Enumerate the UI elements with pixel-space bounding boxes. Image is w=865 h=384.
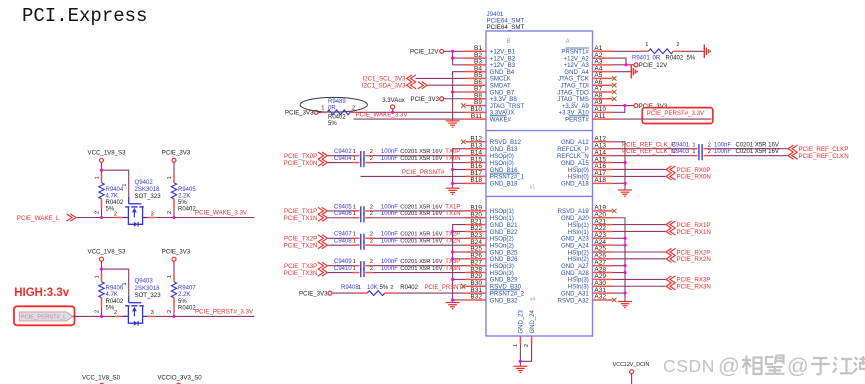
resistor R9407 2.2K <box>167 261 197 313</box>
pin A14 REFCLK_N <box>557 149 613 160</box>
junction 3.3VAux on B10 wire <box>391 111 394 114</box>
svg-text:4.7K: 4.7K <box>106 292 118 298</box>
svg-text:3: 3 <box>151 310 154 316</box>
svg-text:A11: A11 <box>594 113 605 120</box>
svg-text:2: 2 <box>370 149 373 155</box>
wire TX2P to pin <box>372 232 465 239</box>
wire PCIE_RX2N from pin <box>613 255 711 263</box>
resistor R9408 10K <box>332 285 419 295</box>
junction R9406/perst wire <box>100 315 103 318</box>
svg-text:PCIE_3V3: PCIE_3V3 <box>285 110 314 117</box>
svg-text:5%: 5% <box>380 285 389 291</box>
svg-text:1: 1 <box>321 105 324 111</box>
svg-text:SOT_323: SOT_323 <box>135 193 162 200</box>
svg-text:C9409: C9409 <box>334 259 352 265</box>
junction GND A31 <box>623 292 626 295</box>
junction at VCC_1V8_S3 branch <box>100 169 103 172</box>
svg-text:C9406: C9406 <box>334 211 352 217</box>
svg-text:R0402: R0402 <box>328 115 346 121</box>
power 3.3VAux <box>382 97 405 112</box>
svg-text:TX0N: TX0N <box>445 156 460 162</box>
svg-text:C9402: C9402 <box>334 149 352 155</box>
svg-text:PCIE_12V: PCIE_12V <box>639 62 668 69</box>
svg-text:C0201 X5R 16V: C0201 X5R 16V <box>400 204 442 210</box>
wire PCIE_RX1N from pin <box>613 228 711 236</box>
svg-text:100nF: 100nF <box>381 156 398 162</box>
svg-text:R9404: R9404 <box>106 187 124 193</box>
no-connect B9 <box>461 103 465 107</box>
svg-text:PCIE_RX3N: PCIE_RX3N <box>677 284 711 291</box>
pin B13 GND_B13 <box>466 142 519 153</box>
svg-text:C0201 X5R 16V: C0201 X5R 16V <box>400 156 442 162</box>
svg-text:VCCIO_3V3_S0: VCCIO_3V3_S0 <box>157 375 202 382</box>
wire GND bus B13-B18 <box>453 149 466 188</box>
svg-text:2.2K: 2.2K <box>178 193 190 199</box>
svg-text:100nF: 100nF <box>381 149 398 155</box>
wire A11 PERST# to PCIE_PERST#_3.3V <box>613 108 713 124</box>
svg-text:1: 1 <box>692 142 695 148</box>
pin A29 HSIp(3) <box>568 273 613 284</box>
svg-text:1: 1 <box>122 282 128 285</box>
svg-text:GND_A18: GND_A18 <box>561 181 589 188</box>
pin B31 PRSNT2#_2 <box>466 287 525 298</box>
pin B25 GND_B25 <box>466 246 519 257</box>
svg-text:GND_B32: GND_B32 <box>490 297 518 304</box>
wire +3.3V A9-A10 to PCIE_3V3 <box>613 106 634 113</box>
svg-text:1: 1 <box>358 285 361 291</box>
wire R9405 to PCIE_WAKE_3.3V <box>155 208 254 218</box>
pin A11 PERST# <box>565 113 612 124</box>
junction GND B26 <box>451 257 454 260</box>
svg-text:GND_23: GND_23 <box>519 309 525 333</box>
svg-text:PERST#: PERST# <box>565 116 589 123</box>
pin A10 +3.3V_A10 <box>558 106 612 117</box>
svg-text:2: 2 <box>370 259 373 265</box>
svg-text:VCC_1V8_S3: VCC_1V8_S3 <box>88 150 127 157</box>
svg-text:PCIE_WAKE_L: PCIE_WAKE_L <box>17 215 60 222</box>
pin B4 GND_B4 <box>466 65 515 76</box>
watermark jiang <box>833 357 853 373</box>
svg-text:R9406: R9406 <box>106 286 124 292</box>
wire TX0P to pin <box>372 149 465 156</box>
svg-text:HIGH:3.3v: HIGH:3.3v <box>14 287 70 299</box>
svg-text:PCIE_3V3: PCIE_3V3 <box>411 96 440 103</box>
pin B22 GND_B22 <box>466 225 519 236</box>
svg-text:B11: B11 <box>471 113 482 120</box>
svg-text:VCC_1V8_S3: VCC_1V8_S3 <box>88 249 127 256</box>
resistor R9489 0R with ellipse highlight <box>300 97 367 127</box>
pin B18 GND_B18 <box>466 177 519 188</box>
pin B5 SMCLK <box>466 72 511 83</box>
svg-text:2: 2 <box>94 310 100 313</box>
wire PCIE_RX1P from pin <box>613 221 711 229</box>
wire R9407 to PCIE_PERST#_3.3V <box>155 307 254 317</box>
svg-text:1: 1 <box>353 156 356 162</box>
pin A1 PRSNT1# <box>561 45 612 56</box>
pin B21 GND_B21 <box>466 218 519 229</box>
svg-text:I2C1_SDA_3V3: I2C1_SDA_3V3 <box>362 83 406 90</box>
pin B10 3.3VAUX <box>466 106 515 117</box>
svg-text:PCIE_WAKE_3.3V: PCIE_WAKE_3.3V <box>195 209 248 216</box>
pin A4 GND_A4 <box>564 65 612 76</box>
wire TX1N to pin <box>372 211 465 218</box>
svg-text:100nF: 100nF <box>381 211 398 217</box>
wire GND bus A20-A31 <box>613 218 626 302</box>
svg-text:1: 1 <box>94 176 100 179</box>
watermark wang <box>765 356 785 374</box>
junction GND B25 <box>451 250 454 253</box>
svg-text:2: 2 <box>370 266 373 272</box>
ground arrow (A1) <box>704 45 710 59</box>
port PCIE_TX1P <box>284 207 327 215</box>
capacitor C9404 100nF <box>328 156 443 167</box>
wire R9404 bottom to PCIE_WAKE_L line <box>101 208 103 218</box>
svg-text:2: 2 <box>167 310 173 313</box>
power PCIE_3V3 (upper right) <box>162 150 191 163</box>
svg-text:Q9402: Q9402 <box>135 179 154 186</box>
no-connect B12 <box>461 140 465 144</box>
svg-text:1: 1 <box>692 149 695 155</box>
wire I2C1_SDA_3V3 to B6 <box>428 84 466 86</box>
wire PCIE_PERST#_L to Q9403 source <box>73 315 115 317</box>
svg-text:R9407: R9407 <box>178 286 196 292</box>
svg-text:1: 1 <box>353 232 356 238</box>
junction GND B32 <box>451 298 454 301</box>
junction bottom gnd <box>519 360 522 363</box>
ground (section3 B) <box>446 303 460 309</box>
svg-text:R0402: R0402 <box>106 299 124 305</box>
svg-text:PCIE_12V: PCIE_12V <box>410 49 439 56</box>
junction GND B18 <box>451 182 454 185</box>
pin A31 GND_A31 <box>561 287 612 298</box>
wire PCIE_3V3 to B8 <box>444 98 466 100</box>
pin B20 HSOn(1) <box>466 211 514 222</box>
svg-text:PCIE_RX1N: PCIE_RX1N <box>677 229 711 236</box>
pin B1 +12V_B1 <box>466 45 516 56</box>
connector J9401 refdes <box>487 11 525 31</box>
pin A13 REFCLK_P <box>557 142 612 153</box>
wire GND bus A12-A18 <box>613 142 626 190</box>
svg-text:CSDN: CSDN <box>663 356 715 376</box>
svg-text:2: 2 <box>114 211 117 217</box>
svg-text:PCIE_RX0N: PCIE_RX0N <box>677 174 711 181</box>
svg-text:x1: x1 <box>530 184 536 190</box>
capacitor C9409 100nF <box>328 259 443 270</box>
svg-text:2: 2 <box>524 344 530 347</box>
wire PCIE_PRSNT# to B31 <box>395 285 466 293</box>
svg-text:GND_B18: GND_B18 <box>490 181 518 188</box>
resistor R9404 4.7K <box>94 174 124 214</box>
svg-text:B32: B32 <box>470 294 482 301</box>
svg-text:1: 1 <box>513 344 519 347</box>
power PCIE_3V3 (at R9408) <box>299 290 332 297</box>
pin A19 RSVD_A19 <box>558 205 613 216</box>
svg-text:x4: x4 <box>530 297 536 303</box>
junction GND A15 <box>623 161 626 164</box>
svg-text:2: 2 <box>708 142 711 148</box>
wire R9401 to ground arrow <box>681 50 704 52</box>
port PCIE_TX3P <box>284 262 327 270</box>
svg-text:2: 2 <box>370 239 373 245</box>
ground (section2 A) <box>618 190 632 196</box>
power VCC_1V8_S3 (upper) <box>88 150 127 163</box>
svg-text:2: 2 <box>114 310 117 316</box>
svg-text:2: 2 <box>94 211 100 214</box>
svg-text:GND_24: GND_24 <box>530 309 536 333</box>
power VCC_1V8_S0 <box>82 375 121 384</box>
pin B14 HSOp(0) <box>466 149 514 160</box>
svg-text:R9489: R9489 <box>328 99 346 105</box>
pin A32 RSVD_A32 <box>558 294 613 305</box>
pin A27 GND_A27 <box>561 259 612 270</box>
svg-text:PCIE_3V3: PCIE_3V3 <box>162 150 191 157</box>
pin A22 HSIn(1) <box>568 225 613 236</box>
junction GND A28 <box>623 271 626 274</box>
wire VCC_1V8_S3 to R9404 and Q9402 gate <box>102 162 129 197</box>
wire TX3N to pin <box>372 266 465 273</box>
svg-text:SOT_323: SOT_323 <box>135 292 162 299</box>
svg-text:R9408: R9408 <box>341 285 359 291</box>
svg-text:PCIE_3V3: PCIE_3V3 <box>162 249 191 256</box>
pin A25 HSIp(2) <box>568 246 613 257</box>
svg-text:PCIE_RX2N: PCIE_RX2N <box>677 256 711 263</box>
wire PCIE_12V bus B1-B3 <box>444 51 466 65</box>
pin A28 GND_A28 <box>561 266 612 277</box>
wire PCIE_RX0P from pin <box>613 166 711 174</box>
wire PCIE_WAKE_L to Q9402 source <box>77 217 115 219</box>
pin B32 GND_B32 <box>466 294 519 305</box>
svg-text:0R: 0R <box>328 106 336 112</box>
svg-text:R9405: R9405 <box>178 187 196 193</box>
pin A12 GND_A12 <box>561 136 612 147</box>
wire PCIE_REF_CLK_N from pin <box>613 148 691 155</box>
svg-text:100nF: 100nF <box>714 149 731 155</box>
port PCIE_WAKE_L <box>17 214 76 222</box>
svg-text:5%: 5% <box>178 200 187 206</box>
junction GND A27 <box>623 264 626 267</box>
svg-text:C0201 X5R 16V: C0201 X5R 16V <box>736 149 779 155</box>
pin B6 SMDAT <box>466 79 511 90</box>
svg-text:C9410: C9410 <box>334 266 352 272</box>
wire +12V A2-A3 to PCIE_12V <box>613 58 634 65</box>
pin B24 HSOn(2) <box>466 239 514 250</box>
svg-text:R0402: R0402 <box>178 207 196 213</box>
wire PCIE_RX0N from pin <box>613 173 711 181</box>
svg-text:2SK3018: 2SK3018 <box>135 186 161 193</box>
power PCIE_3V3 (right) <box>634 103 668 110</box>
pin B16 GND_B16 <box>466 163 519 174</box>
power PCIE_3V3 (left of B8) <box>411 96 444 103</box>
power PCIE_3V3 (lower right) <box>162 249 191 262</box>
svg-text:2: 2 <box>370 204 373 210</box>
svg-text:2: 2 <box>370 232 373 238</box>
capacitor C9410 100nF <box>328 266 443 277</box>
pin A7 JTAG_TDO <box>557 86 612 97</box>
svg-text:TX1N: TX1N <box>445 211 460 217</box>
pin B11 WAKE# <box>466 113 512 124</box>
port PCIE_TX2P <box>284 235 327 243</box>
connector J9401 body <box>486 31 593 336</box>
wire R9406 bottom to PERST line <box>101 307 103 317</box>
port PCIE_TX1N <box>284 214 328 222</box>
wire TX0N to pin <box>372 156 465 163</box>
svg-text:4.7K: 4.7K <box>106 193 118 199</box>
svg-text:2: 2 <box>167 211 173 214</box>
svg-text:A: A <box>565 38 570 45</box>
svg-text:C9404: C9404 <box>334 156 352 162</box>
port PCIE_TX0N <box>284 159 328 167</box>
svg-text:B18: B18 <box>470 177 482 184</box>
junction R9404/wake wire <box>100 216 103 219</box>
ground (section3 A) <box>618 302 632 308</box>
ground (bottom pins) <box>513 366 527 372</box>
junction A9 3V3 <box>623 104 626 107</box>
no-connect A6 <box>612 83 616 87</box>
svg-text:C0201 X5R 16V: C0201 X5R 16V <box>400 259 442 265</box>
pin A3 +12V_A3 <box>564 59 613 70</box>
svg-text:2: 2 <box>676 42 679 48</box>
svg-text:PCIE_TX0N: PCIE_TX0N <box>284 160 318 167</box>
svg-text:C0201 X5R 16V: C0201 X5R 16V <box>400 266 442 272</box>
wire PCIE_RX3N from pin <box>613 283 711 291</box>
svg-text:C0201 X5R 16V: C0201 X5R 16V <box>400 211 442 217</box>
junction GND A23 <box>623 237 626 240</box>
power VCC_1V8_S3 (lower) <box>88 249 127 262</box>
svg-text:TX1P: TX1P <box>445 204 460 210</box>
wire PCIE_RX2P from pin <box>613 248 711 256</box>
svg-text:VCC12V_DCIN: VCC12V_DCIN <box>613 362 650 368</box>
svg-text:Q9403: Q9403 <box>135 278 154 285</box>
svg-text:PCIE_TX1N: PCIE_TX1N <box>284 215 318 222</box>
svg-text:A32: A32 <box>594 294 606 301</box>
pin B29 GND_B29 <box>466 273 519 284</box>
capacitor C9408 100nF <box>328 239 443 250</box>
port PCIE_TX0P <box>284 152 327 160</box>
pin A20 GND_A20 <box>561 211 612 222</box>
wire PCIE_RX3P from pin <box>613 276 711 284</box>
pin A2 +12V_A2 <box>564 52 613 63</box>
resistor R9405 2.2K <box>167 162 197 214</box>
power PCIE_3V3 (at R9489) <box>285 110 318 117</box>
svg-text:2: 2 <box>370 156 373 162</box>
junction R9405/wake3.3 wire <box>172 216 175 219</box>
svg-text:C9407: C9407 <box>334 232 352 238</box>
svg-text:R0402: R0402 <box>666 55 684 61</box>
pin A17 HSIn(0) <box>568 170 613 181</box>
capacitor C9407 100nF <box>328 232 443 243</box>
capacitor C9401 100nF <box>672 142 779 153</box>
svg-text:0R: 0R <box>653 55 661 61</box>
pin B15 HSOn(0) <box>466 156 514 167</box>
no-connect A19 <box>612 209 616 213</box>
svg-text:1: 1 <box>94 275 100 278</box>
wire TX3P to pin <box>372 259 465 266</box>
svg-text:C9403: C9403 <box>672 149 690 155</box>
capacitor C9406 100nF <box>328 211 443 222</box>
svg-text:1: 1 <box>122 183 128 186</box>
junction GND A24 <box>623 244 626 247</box>
svg-text:100nF: 100nF <box>381 259 398 265</box>
svg-text:C0201 X5R 16V: C0201 X5R 16V <box>400 239 442 245</box>
transistor Q9402 2SK3018 <box>114 179 161 227</box>
svg-text:PCIE_3V3: PCIE_3V3 <box>299 290 328 297</box>
capacitor C9402 100nF <box>328 149 443 160</box>
no-connect A5 <box>612 76 616 80</box>
junction A3 12V <box>624 63 627 66</box>
wire GND_A4 to ground arrow <box>613 71 631 73</box>
wire PCIE_PRSNT# to B17 <box>361 169 466 176</box>
pin A24 GND_A24 <box>561 239 612 250</box>
svg-text:C9408: C9408 <box>334 239 352 245</box>
pin B3 +12V_B3 <box>466 59 516 70</box>
wire VCC_1V8_S3 to R9406 and Q9403 gate <box>102 261 129 296</box>
svg-text:PCIE_PRSNT#: PCIE_PRSNT# <box>425 285 467 291</box>
no-connect A32 <box>612 298 616 302</box>
wire GND bus B4-B7 <box>453 72 466 121</box>
pin B19 HSOp(1) <box>466 205 514 216</box>
wire to port PCIE_REF_CLKP <box>711 145 849 153</box>
svg-text:R0402: R0402 <box>106 200 124 206</box>
svg-text:100nF: 100nF <box>381 266 398 272</box>
pin B8 +3.3V_B8 <box>466 92 518 103</box>
svg-text:1: 1 <box>167 176 173 179</box>
svg-text:WAKE#: WAKE# <box>490 116 512 123</box>
pin A6 JTAG_TDI <box>560 79 612 90</box>
resistor R9406 4.7K <box>94 273 124 313</box>
svg-text:1: 1 <box>353 149 356 155</box>
wire TX1P to pin <box>372 204 465 211</box>
pin A18 GND_A18 <box>561 177 612 188</box>
svg-text:PCIE_PERST#_3.3V: PCIE_PERST#_3.3V <box>195 308 254 315</box>
wire PCIE_REF_CLK_P from pin <box>613 141 691 148</box>
svg-text:PCIE_TX2N: PCIE_TX2N <box>284 242 318 249</box>
svg-text:5%: 5% <box>178 299 187 305</box>
port PCIE_PERST#_L with highlight box <box>14 306 75 325</box>
pin B12 RSVD_B12 <box>466 136 522 147</box>
svg-text:10K: 10K <box>367 285 378 291</box>
watermark hu <box>854 356 865 374</box>
svg-text:C9405: C9405 <box>334 204 352 210</box>
ground (section1 B) <box>446 121 460 127</box>
pin A8 JTAG_TMS <box>557 92 612 103</box>
wire GND bus B21-B32 <box>453 225 466 303</box>
svg-text:PCIE_PRSNT#: PCIE_PRSNT# <box>402 169 445 176</box>
junction lower VCC branch <box>100 268 103 271</box>
ground (section2 B) <box>446 188 460 194</box>
svg-text:PCIE_REF_CLK_N: PCIE_REF_CLK_N <box>622 148 676 155</box>
power PCIE_12V (left of B1) <box>410 49 444 56</box>
port PCIE_TX3N <box>284 269 328 277</box>
no-connect B30 <box>461 284 465 288</box>
no-connect A8 <box>612 97 616 101</box>
svg-text:R0402: R0402 <box>178 306 196 312</box>
svg-text:VCC_1V8_S0: VCC_1V8_S0 <box>82 375 121 382</box>
svg-text:R0402: R0402 <box>400 285 418 291</box>
pin B9 JTAG_TRST <box>466 99 525 110</box>
power PCIE_12V (right) <box>634 62 668 69</box>
svg-text:C0201 X5R 16V: C0201 X5R 16V <box>400 232 442 238</box>
svg-text:2SK3018: 2SK3018 <box>135 285 161 292</box>
svg-text:A18: A18 <box>594 177 606 184</box>
pin B28 HSOn(3) <box>466 266 514 277</box>
svg-text:1: 1 <box>353 266 356 272</box>
svg-text:3: 3 <box>151 211 154 217</box>
svg-text:PCIE_PERST#_3.3V: PCIE_PERST#_3.3V <box>647 110 705 117</box>
svg-text:100nF: 100nF <box>381 204 398 210</box>
svg-text:PCIE_REF_CLKN: PCIE_REF_CLKN <box>799 153 849 160</box>
junction R9407/perst3.3 wire <box>172 315 175 318</box>
pin A16 HSIp(0) <box>568 163 613 174</box>
